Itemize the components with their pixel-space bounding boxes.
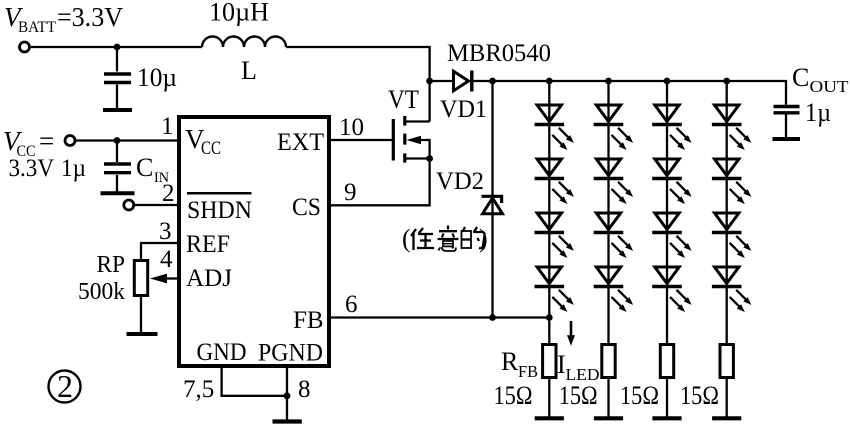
- svg-text:7,5: 7,5: [183, 376, 214, 403]
- svg-text:PGND: PGND: [258, 340, 323, 367]
- svg-text:FB: FB: [518, 362, 538, 381]
- svg-text:=: =: [39, 126, 54, 156]
- svg-text:I: I: [557, 350, 566, 379]
- svg-text:VD2: VD2: [436, 168, 484, 195]
- svg-text:C: C: [136, 153, 153, 182]
- svg-text:MBR0540: MBR0540: [447, 40, 551, 67]
- svg-text:8: 8: [298, 376, 311, 403]
- svg-text:OUT: OUT: [810, 77, 850, 96]
- svg-text:6: 6: [345, 291, 358, 318]
- svg-text:9: 9: [344, 179, 357, 206]
- svg-text:VT: VT: [388, 85, 419, 114]
- svg-text:15Ω: 15Ω: [494, 381, 533, 410]
- svg-text:2: 2: [57, 368, 73, 404]
- svg-text:CC: CC: [201, 138, 221, 159]
- svg-text:(: (: [402, 224, 411, 253]
- svg-text:=3.3V: =3.3V: [57, 2, 123, 32]
- svg-text:1µ: 1µ: [61, 155, 86, 182]
- svg-text:RP: RP: [97, 252, 126, 278]
- svg-text:1µ: 1µ: [805, 98, 831, 127]
- svg-text:VD1: VD1: [440, 96, 487, 123]
- svg-text:R: R: [501, 347, 519, 376]
- svg-text:GND: GND: [197, 339, 247, 366]
- svg-text:4: 4: [160, 246, 173, 273]
- svg-text:REF: REF: [186, 231, 230, 258]
- svg-text:SHDN: SHDN: [187, 197, 252, 224]
- svg-text:15Ω: 15Ω: [559, 381, 598, 410]
- svg-text:15Ω: 15Ω: [680, 381, 719, 410]
- svg-text:2: 2: [162, 180, 175, 207]
- svg-text:BATT: BATT: [18, 19, 56, 36]
- svg-text:CS: CS: [292, 194, 321, 221]
- svg-text:10: 10: [339, 114, 364, 141]
- svg-text:15Ω: 15Ω: [620, 381, 659, 410]
- svg-text:C: C: [792, 63, 809, 92]
- svg-text:500k: 500k: [78, 279, 125, 305]
- svg-text:10µ: 10µ: [137, 63, 177, 92]
- svg-text:1: 1: [161, 113, 174, 140]
- svg-text:L: L: [241, 56, 257, 85]
- svg-text:10µH: 10µH: [209, 0, 269, 27]
- svg-text:3: 3: [159, 218, 172, 245]
- svg-text:ADJ: ADJ: [186, 265, 232, 292]
- svg-text:3.3V: 3.3V: [9, 155, 55, 182]
- svg-text:EXT: EXT: [277, 129, 324, 156]
- svg-text:FB: FB: [293, 307, 324, 334]
